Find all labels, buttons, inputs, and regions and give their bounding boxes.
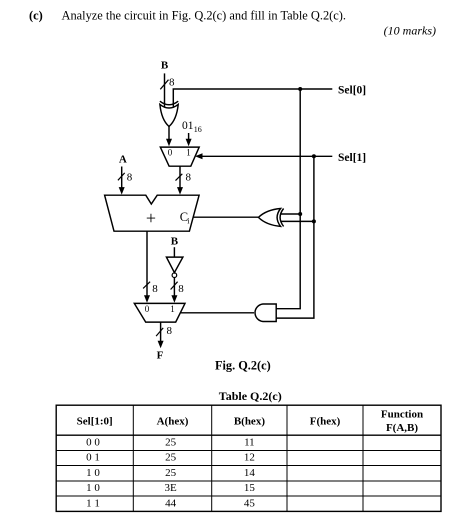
svg-text:F(hex): F(hex): [310, 416, 341, 428]
wire Ci to XOR U3: [193, 216, 258, 218]
svg-text:A: A: [119, 153, 127, 165]
bus slash B 8: [160, 80, 168, 90]
bus slash adder out 8: [143, 282, 150, 289]
svg-text:+: +: [146, 208, 156, 228]
svg-text:Analyze the circuit in Fig. Q.: Analyze the circuit in Fig. Q.2(c) and f…: [62, 8, 347, 22]
svg-text:16: 16: [194, 125, 202, 134]
wire M2 output to F: [160, 322, 162, 341]
junction U3a: [298, 212, 302, 216]
svg-text:Sel[1]: Sel[1]: [338, 152, 366, 164]
svg-text:(c): (c): [29, 8, 43, 22]
svg-text:25: 25: [165, 452, 177, 464]
wire B to inverter: [173, 247, 175, 257]
svg-text:0 1: 0 1: [86, 452, 100, 464]
xor gate U3 (pointing left): [258, 209, 283, 227]
inverter U4: [166, 257, 183, 273]
svg-text:45: 45: [244, 497, 256, 509]
svg-text:8: 8: [169, 77, 175, 89]
svg-text:8: 8: [127, 172, 133, 184]
svg-text:F: F: [157, 349, 164, 361]
svg-text:Fig. Q.2(c): Fig. Q.2(c): [215, 359, 271, 373]
svg-text:01: 01: [182, 120, 194, 132]
bus slash inv out 8: [171, 282, 178, 290]
svg-text:15: 15: [244, 482, 256, 494]
wire A to adder: [121, 167, 123, 189]
svg-text:1 0: 1 0: [86, 467, 100, 479]
svg-text:0: 0: [145, 304, 150, 314]
wire Sel[0] horizontal: [173, 89, 332, 107]
junction Sel[1] tap: [312, 154, 316, 158]
junction U3b: [312, 219, 316, 223]
wire 01 to mux M1 input 1: [188, 133, 190, 140]
svg-text:0: 0: [168, 148, 173, 158]
bus slash M1 out 8: [176, 174, 183, 181]
wire B to XOR U1: [164, 73, 166, 107]
svg-text:1 0: 1 0: [86, 482, 100, 494]
svg-text:25: 25: [165, 437, 177, 449]
svg-text:25: 25: [165, 467, 177, 479]
svg-text:14: 14: [244, 467, 256, 479]
svg-text:12: 12: [244, 452, 255, 464]
svg-text:8: 8: [167, 325, 173, 337]
svg-text:B: B: [161, 60, 169, 72]
adder U2: [105, 195, 200, 231]
svg-text:Function: Function: [381, 409, 423, 421]
svg-text:11: 11: [244, 437, 255, 449]
wire M1 output to adder: [179, 166, 181, 188]
svg-text:B(hex): B(hex): [234, 416, 266, 428]
svg-text:1: 1: [186, 148, 191, 158]
junction Sel[0] tap: [298, 87, 302, 91]
svg-text:1: 1: [170, 304, 175, 314]
wire U5 output to M2 select: [180, 312, 254, 314]
table grid: [56, 405, 441, 511]
wire Sel[0] vertical to AND gate: [276, 89, 300, 309]
svg-text:0 0: 0 0: [86, 437, 100, 449]
table data: [86, 437, 255, 510]
mux M1 (2:1): [160, 147, 199, 166]
bus slash A 8: [118, 173, 125, 180]
wire U1 output to mux M1 input 0: [168, 127, 170, 141]
svg-text:Table Q.2(c): Table Q.2(c): [219, 389, 282, 403]
wire U3 input a: [280, 213, 300, 215]
svg-text:44: 44: [165, 497, 177, 509]
svg-text:8: 8: [186, 172, 192, 184]
svg-text:3E: 3E: [164, 482, 177, 494]
svg-text:Sel[1:0]: Sel[1:0]: [77, 416, 113, 428]
wire adder output to mux M2 input 0: [146, 231, 148, 296]
and gate U5 (pointing left): [255, 304, 276, 322]
svg-text:A(hex): A(hex): [157, 416, 189, 428]
wire Sel[1] vertical to AND gate: [276, 156, 314, 318]
wire U3 input b: [281, 220, 314, 222]
svg-text:8: 8: [178, 283, 184, 295]
wire U4 output to mux M2 input 1: [173, 278, 175, 297]
svg-text:1 1: 1 1: [86, 497, 100, 509]
svg-text:B: B: [171, 235, 179, 247]
svg-text:(10 marks): (10 marks): [384, 24, 436, 38]
bus slash F 8: [156, 328, 163, 336]
mux M2 (2:1): [134, 303, 185, 322]
svg-text:F(A,B): F(A,B): [386, 422, 418, 434]
table header: [77, 409, 423, 435]
xor gate U1 (B xor Sel[0], pointing down): [160, 101, 178, 126]
wire Sel[1] horizontal to M1 select: [202, 155, 332, 157]
svg-text:8: 8: [152, 283, 158, 295]
svg-text:Sel[0]: Sel[0]: [338, 85, 366, 97]
